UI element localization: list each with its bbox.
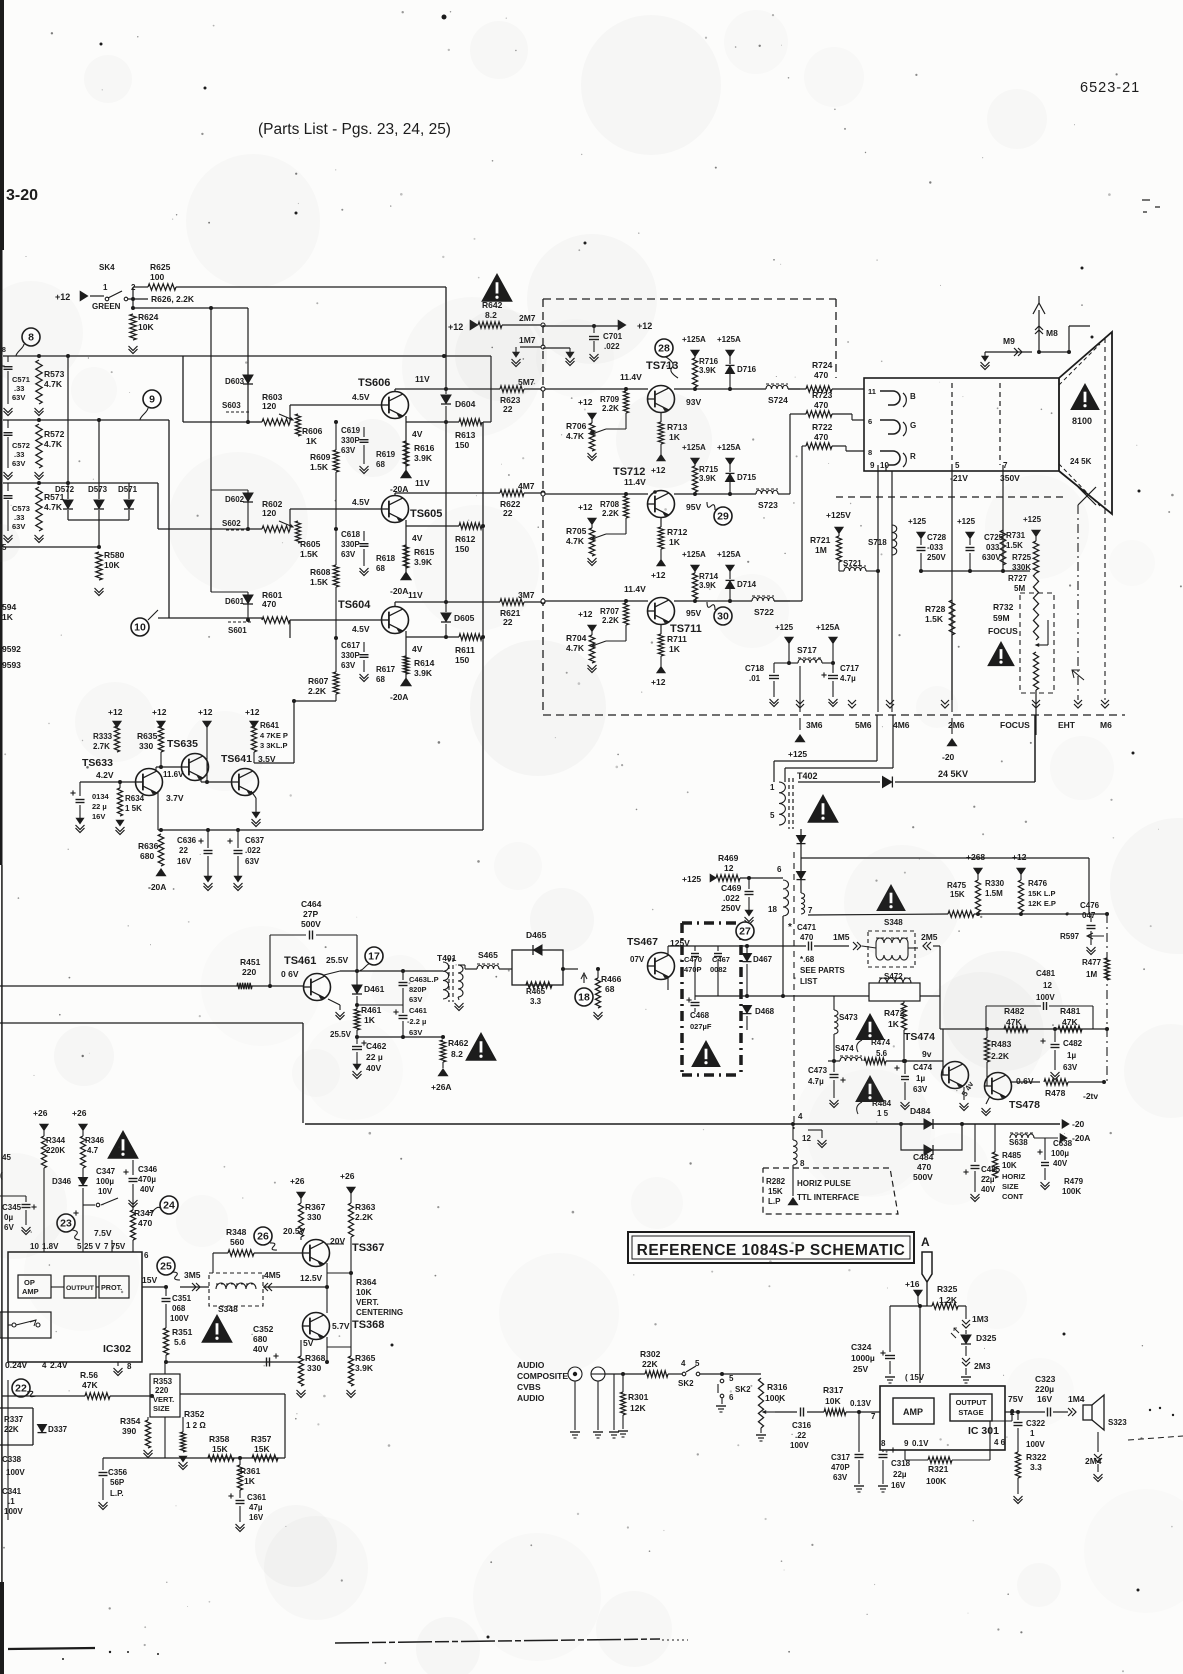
svg-text:330: 330	[307, 1212, 321, 1222]
svg-text:18: 18	[768, 905, 777, 914]
svg-text:R607: R607	[308, 676, 329, 686]
svg-text:C718: C718	[745, 664, 765, 673]
svg-text:1000µ: 1000µ	[851, 1353, 875, 1363]
svg-text:R: R	[910, 452, 916, 461]
svg-text:R709: R709	[600, 395, 620, 404]
svg-text:T401: T401	[437, 953, 457, 963]
svg-text:+125A: +125A	[816, 623, 840, 632]
svg-text:27P: 27P	[303, 909, 318, 919]
svg-text:100V: 100V	[170, 1314, 189, 1323]
svg-text:C482: C482	[1063, 1039, 1083, 1048]
svg-text:.33: .33	[14, 384, 24, 393]
svg-text:A: A	[921, 1235, 930, 1249]
svg-text:17: 17	[368, 951, 380, 963]
svg-text:-21V: -21V	[950, 473, 968, 483]
svg-text:R597: R597	[1060, 932, 1080, 941]
svg-text:R732: R732	[993, 602, 1014, 612]
svg-text:7: 7	[871, 1412, 876, 1421]
svg-text:12K E.P: 12K E.P	[1028, 899, 1056, 908]
svg-text:2.2K: 2.2K	[308, 686, 327, 696]
svg-text:AUDIO: AUDIO	[517, 1393, 545, 1403]
svg-text:100K: 100K	[926, 1476, 947, 1486]
svg-text:2.2K: 2.2K	[602, 509, 619, 518]
svg-text:R616: R616	[414, 443, 435, 453]
svg-text:4.7µ: 4.7µ	[840, 674, 856, 683]
svg-text:R347: R347	[134, 1208, 155, 1218]
svg-text:594: 594	[2, 602, 16, 612]
svg-text:3.9K: 3.9K	[699, 366, 716, 375]
svg-text:C341: C341	[2, 1487, 22, 1496]
svg-text:63V: 63V	[12, 459, 25, 468]
svg-text:390: 390	[122, 1426, 136, 1436]
svg-text:OUTPUT: OUTPUT	[956, 1398, 987, 1407]
svg-text:100K: 100K	[1062, 1187, 1081, 1196]
svg-text:24: 24	[163, 1200, 175, 1212]
svg-text:S323: S323	[1108, 1418, 1127, 1427]
svg-text:C464: C464	[301, 899, 322, 909]
svg-text:R626, 2.2K: R626, 2.2K	[151, 294, 195, 304]
svg-text:R.56: R.56	[80, 1370, 98, 1380]
svg-text:R364: R364	[356, 1277, 377, 1287]
svg-text:3M5: 3M5	[184, 1270, 201, 1280]
svg-text:100µ: 100µ	[1051, 1149, 1069, 1158]
svg-text:5V: 5V	[303, 1338, 314, 1348]
svg-text:24 5KV: 24 5KV	[938, 769, 968, 779]
svg-text:R317: R317	[823, 1385, 844, 1395]
svg-text:.22: .22	[795, 1431, 807, 1440]
svg-text:4: 4	[42, 1361, 47, 1370]
svg-text:1: 1	[1030, 1429, 1035, 1438]
svg-text:10K: 10K	[1002, 1161, 1017, 1170]
svg-text:+125A: +125A	[682, 335, 706, 344]
svg-text:2.2K: 2.2K	[602, 404, 619, 413]
svg-text:15K L.P: 15K L.P	[1028, 889, 1056, 898]
svg-text:R704: R704	[566, 633, 587, 643]
svg-text:28: 28	[658, 343, 670, 355]
svg-text:10K: 10K	[356, 1287, 372, 1297]
svg-text:9: 9	[870, 461, 875, 470]
svg-text:4.7: 4.7	[87, 1146, 99, 1155]
svg-text:C572: C572	[12, 441, 30, 450]
svg-text:1K: 1K	[306, 436, 318, 446]
svg-text:470P: 470P	[831, 1463, 850, 1472]
svg-text:C361: C361	[247, 1493, 267, 1502]
svg-text:G: G	[910, 421, 916, 430]
svg-text:+125: +125	[957, 517, 976, 526]
svg-text:3.9K: 3.9K	[699, 474, 716, 483]
svg-text:2.2K: 2.2K	[355, 1212, 374, 1222]
svg-text:2M3: 2M3	[974, 1361, 991, 1371]
svg-text:S601: S601	[228, 626, 247, 635]
svg-text:8.2: 8.2	[451, 1049, 463, 1059]
svg-text:C352: C352	[253, 1324, 274, 1334]
svg-text:*.68: *.68	[800, 955, 815, 964]
svg-text:-2tv: -2tv	[1083, 1091, 1098, 1101]
svg-text:+12: +12	[1012, 852, 1027, 862]
svg-text:100µ: 100µ	[96, 1177, 114, 1186]
svg-text:REFERENCE 1084S-P SCHEMATIC: REFERENCE 1084S-P SCHEMATIC	[637, 1242, 906, 1259]
svg-text:( 15V: ( 15V	[905, 1373, 925, 1382]
svg-text:10K: 10K	[138, 322, 154, 332]
svg-text:R344: R344	[46, 1136, 66, 1145]
svg-text:LIST: LIST	[800, 977, 817, 986]
svg-text:25: 25	[160, 1261, 172, 1273]
svg-text:C317: C317	[831, 1453, 851, 1462]
svg-text:25V: 25V	[853, 1364, 868, 1374]
svg-text:EHT: EHT	[1058, 720, 1076, 730]
svg-text:59M: 59M	[993, 613, 1010, 623]
svg-text:470: 470	[814, 370, 828, 380]
svg-text:SIZE: SIZE	[1002, 1182, 1019, 1191]
svg-text:1K: 1K	[244, 1476, 256, 1486]
svg-text:5: 5	[729, 1374, 734, 1383]
svg-text:1K: 1K	[888, 1019, 900, 1029]
svg-text:4.5V: 4.5V	[352, 497, 370, 507]
svg-text:R474: R474	[871, 1038, 891, 1047]
svg-text:R368: R368	[305, 1353, 326, 1363]
svg-text:TS606: TS606	[358, 377, 390, 389]
svg-text:C471: C471	[797, 923, 817, 932]
svg-text:16V: 16V	[249, 1513, 264, 1522]
svg-text:R346: R346	[85, 1136, 105, 1145]
svg-text:C468: C468	[690, 1011, 710, 1020]
svg-text:+12: +12	[578, 609, 593, 619]
svg-text:6: 6	[729, 1393, 734, 1402]
svg-text:-20: -20	[1072, 1119, 1085, 1129]
svg-text:8: 8	[881, 1439, 886, 1448]
svg-text:470: 470	[814, 432, 828, 442]
svg-text:D468: D468	[755, 1007, 775, 1016]
svg-text:3M6: 3M6	[806, 720, 823, 730]
svg-text:S724: S724	[768, 395, 788, 405]
svg-text:5.6: 5.6	[174, 1337, 186, 1347]
svg-text:R302: R302	[640, 1349, 661, 1359]
svg-text:C618: C618	[341, 530, 361, 539]
svg-text:C338: C338	[2, 1455, 22, 1464]
svg-text:.33: .33	[14, 513, 24, 522]
svg-text:27: 27	[739, 926, 751, 938]
svg-text:D337: D337	[48, 1425, 68, 1434]
svg-text:1.5K: 1.5K	[310, 462, 329, 472]
svg-text:R485: R485	[1002, 1151, 1022, 1160]
svg-text:10K: 10K	[104, 560, 120, 570]
svg-text:-033: -033	[927, 543, 944, 552]
svg-text:CONT: CONT	[1002, 1192, 1024, 1201]
svg-text:15V: 15V	[142, 1275, 157, 1285]
svg-text:+268: +268	[966, 852, 985, 862]
svg-text:STAGE: STAGE	[958, 1408, 983, 1417]
svg-text:C637: C637	[245, 836, 265, 845]
svg-text:R361: R361	[240, 1466, 261, 1476]
svg-text:1.5M: 1.5M	[985, 889, 1003, 898]
svg-text:0134: 0134	[92, 792, 110, 801]
svg-text:3.9K: 3.9K	[355, 1363, 374, 1373]
svg-text:500V: 500V	[301, 919, 321, 929]
svg-text:1 5K: 1 5K	[125, 804, 142, 813]
svg-text:AMP: AMP	[903, 1407, 923, 1417]
svg-text:R711: R711	[667, 634, 687, 644]
svg-text:3.3: 3.3	[530, 997, 542, 1006]
svg-text:-20A: -20A	[390, 692, 408, 702]
svg-text:D715: D715	[737, 473, 757, 482]
svg-text:R708: R708	[600, 500, 620, 509]
svg-text:40V: 40V	[140, 1185, 155, 1194]
svg-text:L.P.: L.P.	[110, 1489, 124, 1498]
svg-text:4 6: 4 6	[994, 1438, 1006, 1447]
svg-text:047: 047	[1082, 911, 1096, 920]
svg-text:18: 18	[578, 992, 590, 1004]
svg-text:R476: R476	[1028, 879, 1048, 888]
svg-text:+125A: +125A	[717, 550, 741, 559]
svg-text:R321: R321	[928, 1464, 949, 1474]
svg-text:1µ: 1µ	[916, 1074, 925, 1083]
svg-text:R624: R624	[138, 312, 159, 322]
svg-text:63V: 63V	[1063, 1063, 1078, 1072]
svg-text:-20A: -20A	[1072, 1133, 1090, 1143]
svg-text:330P: 330P	[341, 540, 360, 549]
svg-text:11V: 11V	[415, 478, 430, 488]
svg-text:-20A: -20A	[148, 882, 166, 892]
svg-text:R728: R728	[925, 604, 946, 614]
svg-text:16V: 16V	[92, 812, 105, 821]
svg-text:C346: C346	[138, 1165, 158, 1174]
svg-text:56P: 56P	[110, 1478, 125, 1487]
svg-text:R572: R572	[44, 429, 65, 439]
svg-text:R462: R462	[448, 1038, 469, 1048]
svg-text:470: 470	[814, 400, 828, 410]
svg-text:R706: R706	[566, 421, 587, 431]
svg-text:25.5V: 25.5V	[326, 955, 349, 965]
svg-text:.022: .022	[245, 846, 261, 855]
svg-text:TS478: TS478	[1009, 1099, 1040, 1111]
svg-text:1K: 1K	[669, 644, 681, 654]
svg-text:8: 8	[127, 1362, 132, 1371]
svg-text:1.5K: 1.5K	[310, 577, 329, 587]
svg-text:T402: T402	[797, 771, 818, 781]
svg-text:C636: C636	[177, 836, 197, 845]
svg-text:R641: R641	[260, 721, 280, 730]
svg-text:C728: C728	[927, 533, 947, 542]
svg-text:1.5K: 1.5K	[300, 549, 319, 559]
svg-text:R357: R357	[251, 1434, 272, 1444]
svg-text:7: 7	[808, 906, 813, 915]
svg-text:4M6: 4M6	[893, 720, 910, 730]
svg-text:R625: R625	[150, 262, 171, 272]
svg-text:63V: 63V	[12, 393, 25, 402]
svg-text:IC 301: IC 301	[968, 1425, 999, 1437]
svg-text:40V: 40V	[1053, 1159, 1068, 1168]
svg-text:TS604: TS604	[338, 599, 371, 611]
svg-text:(Parts List - Pgs. 23, 24, 25): (Parts List - Pgs. 23, 24, 25)	[258, 121, 451, 138]
svg-text:4.5V: 4.5V	[352, 624, 370, 634]
svg-text:+12: +12	[651, 677, 666, 687]
svg-text:SEE PARTS: SEE PARTS	[800, 966, 845, 975]
svg-text:IC302: IC302	[103, 1343, 131, 1355]
svg-text:3.9K: 3.9K	[414, 668, 433, 678]
svg-text:.33: .33	[14, 450, 24, 459]
svg-text:24 5K: 24 5K	[1070, 457, 1092, 466]
svg-text:B: B	[910, 392, 916, 401]
svg-text:22µ: 22µ	[893, 1470, 907, 1479]
svg-text:-2.2 µ: -2.2 µ	[407, 1017, 426, 1026]
svg-text:1: 1	[770, 783, 775, 792]
svg-text:100V: 100V	[1026, 1440, 1045, 1449]
svg-text:470: 470	[262, 599, 276, 609]
svg-text:1M5: 1M5	[833, 932, 850, 942]
svg-text:SIZE: SIZE	[153, 1404, 170, 1413]
svg-text:D716: D716	[737, 365, 757, 374]
svg-text:11: 11	[868, 387, 876, 396]
svg-text:FOCUS: FOCUS	[988, 626, 1018, 636]
svg-text:R337: R337	[4, 1415, 24, 1424]
svg-text:+125: +125	[788, 749, 807, 759]
svg-text:M9: M9	[1003, 336, 1015, 346]
svg-text:TS467: TS467	[627, 936, 658, 948]
svg-text:1µ: 1µ	[1067, 1051, 1076, 1060]
svg-text:10K: 10K	[825, 1396, 841, 1406]
svg-text:4M7: 4M7	[518, 481, 535, 491]
svg-text:S718: S718	[868, 538, 887, 547]
svg-text:+125A: +125A	[682, 550, 706, 559]
svg-text:R353: R353	[153, 1377, 173, 1386]
svg-text:4.7K: 4.7K	[44, 502, 63, 512]
svg-text:9592: 9592	[2, 644, 21, 654]
svg-text:R481: R481	[1060, 1006, 1081, 1016]
svg-text:4 7KE P: 4 7KE P	[260, 731, 288, 740]
svg-text:CENTERING: CENTERING	[356, 1308, 403, 1317]
svg-text:5M6: 5M6	[855, 720, 872, 730]
svg-text:R611: R611	[455, 645, 475, 655]
svg-text:26: 26	[257, 1231, 269, 1243]
svg-text:M6: M6	[1100, 720, 1112, 730]
svg-text:15K: 15K	[212, 1444, 228, 1454]
svg-text:470: 470	[138, 1218, 152, 1228]
svg-text:R466: R466	[601, 974, 622, 984]
svg-text:FOCUS: FOCUS	[1000, 720, 1030, 730]
svg-text:10: 10	[134, 622, 146, 634]
svg-text:8100: 8100	[1072, 416, 1092, 426]
svg-text:63V: 63V	[833, 1473, 848, 1482]
svg-text:C469: C469	[721, 883, 742, 893]
svg-text:027µF: 027µF	[690, 1022, 712, 1031]
svg-text:R461: R461	[361, 1005, 382, 1015]
svg-text:+12: +12	[651, 570, 666, 580]
svg-text:S717: S717	[797, 645, 817, 655]
svg-text:2.4V: 2.4V	[50, 1360, 68, 1370]
svg-text:R606: R606	[302, 426, 323, 436]
svg-text:9: 9	[904, 1439, 909, 1448]
svg-text:C316: C316	[792, 1421, 812, 1430]
svg-text:5.6: 5.6	[876, 1049, 888, 1058]
svg-text:1M: 1M	[1086, 970, 1097, 979]
svg-text:+125: +125	[908, 517, 927, 526]
svg-text:R712: R712	[667, 527, 688, 537]
svg-text:S723: S723	[758, 500, 778, 510]
svg-text:29: 29	[717, 511, 729, 523]
svg-text:R609: R609	[310, 452, 331, 462]
svg-text:+125V: +125V	[826, 510, 851, 520]
svg-text:R478: R478	[1045, 1088, 1066, 1098]
svg-text:4.7K: 4.7K	[566, 536, 585, 546]
svg-text:.01: .01	[749, 674, 761, 683]
svg-text:C324: C324	[851, 1342, 872, 1352]
svg-text:4.7K: 4.7K	[44, 439, 63, 449]
svg-text:D571: D571	[118, 485, 138, 494]
svg-text:16V: 16V	[177, 857, 192, 866]
svg-text:SK2: SK2	[735, 1385, 751, 1394]
svg-text:R367: R367	[305, 1202, 326, 1212]
svg-text:R721: R721	[810, 535, 831, 545]
svg-text:R477: R477	[1082, 958, 1102, 967]
svg-text:S473: S473	[839, 1013, 858, 1022]
svg-text:1: 1	[103, 283, 108, 292]
svg-text:63V: 63V	[341, 661, 356, 670]
svg-text:R358: R358	[209, 1434, 230, 1444]
svg-text:12: 12	[724, 863, 734, 873]
svg-text:R724: R724	[812, 360, 833, 370]
svg-text:1K: 1K	[669, 537, 681, 547]
svg-text:VERT.: VERT.	[153, 1395, 174, 1404]
svg-text:068: 068	[172, 1304, 186, 1313]
svg-text:22: 22	[179, 846, 188, 855]
svg-text:9593: 9593	[2, 660, 21, 670]
svg-text:150: 150	[455, 440, 469, 450]
svg-text:470: 470	[800, 933, 814, 942]
svg-text:S474: S474	[835, 1044, 854, 1053]
svg-text:-20: -20	[942, 752, 955, 762]
svg-text:47K: 47K	[1062, 1017, 1078, 1027]
svg-text:SK2: SK2	[678, 1379, 694, 1388]
svg-text:C351: C351	[172, 1294, 192, 1303]
svg-text:3.9K: 3.9K	[699, 581, 716, 590]
svg-text:1K: 1K	[2, 612, 14, 622]
svg-text:5: 5	[955, 461, 960, 470]
svg-text:22: 22	[15, 1383, 27, 1395]
svg-text:R363: R363	[355, 1202, 376, 1212]
svg-text:R354: R354	[120, 1416, 141, 1426]
svg-text:+125: +125	[682, 874, 701, 884]
svg-text:63V: 63V	[245, 857, 260, 866]
svg-text:68: 68	[376, 564, 385, 573]
svg-text:2.2K: 2.2K	[602, 616, 619, 625]
svg-text:63V: 63V	[409, 1028, 422, 1037]
svg-text:470P: 470P	[684, 965, 702, 974]
svg-text:4.7K: 4.7K	[566, 431, 585, 441]
svg-text:-20A: -20A	[390, 586, 408, 596]
svg-text:4.2V: 4.2V	[96, 770, 114, 780]
svg-text:.022: .022	[723, 893, 740, 903]
svg-text:R316: R316	[767, 1382, 788, 1392]
svg-text:4: 4	[681, 1359, 686, 1368]
svg-text:6: 6	[868, 417, 872, 426]
svg-text:3.9K: 3.9K	[414, 453, 433, 463]
svg-text:VERT.: VERT.	[356, 1298, 379, 1307]
svg-text:+12: +12	[245, 707, 260, 717]
svg-text:GREEN: GREEN	[92, 302, 121, 311]
svg-text:0.24V: 0.24V	[5, 1360, 28, 1370]
svg-text:R330: R330	[985, 879, 1005, 888]
svg-text:47µ: 47µ	[249, 1503, 263, 1512]
svg-text:40V: 40V	[253, 1344, 268, 1354]
svg-text:R365: R365	[355, 1353, 376, 1363]
svg-text:L.P: L.P	[768, 1197, 781, 1206]
svg-text:R617: R617	[376, 665, 396, 674]
svg-text:+26: +26	[72, 1108, 87, 1118]
svg-text:R707: R707	[600, 607, 620, 616]
svg-text:6523-21: 6523-21	[1080, 80, 1140, 96]
svg-text:R325: R325	[937, 1284, 958, 1294]
svg-text:10V: 10V	[98, 1187, 113, 1196]
